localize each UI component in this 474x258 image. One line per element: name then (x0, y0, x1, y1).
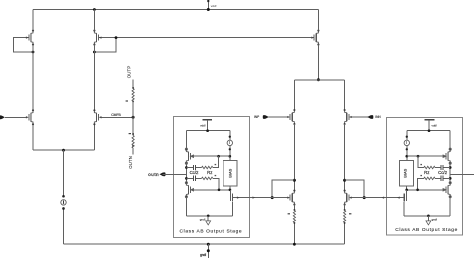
node stage2 tail junction (317, 78, 320, 81)
svg-text:OUTN: OUTN (128, 156, 133, 169)
transistor MN1 (input NMOS left) (26, 109, 34, 125)
wire: MN2 gate to CMFB (102, 116, 134, 118)
node left gate junction (271, 196, 274, 199)
wire: INP to gate (269, 116, 288, 118)
class AB output stage box 2 (mirrored) (380, 120, 474, 225)
wire: tail down (63, 150, 65, 244)
wire: VDD top rail (33, 9, 318, 11)
svg-text:Rz: Rz (424, 170, 429, 175)
svg-text:Cc/2: Cc/2 (438, 170, 447, 175)
node PMOS2 drain junction (93, 51, 96, 54)
svg-text:INN: INN (375, 115, 381, 119)
svg-text:gnd!: gnd! (200, 253, 206, 257)
label R1 tick (126, 100, 128, 101)
label R2 tick (129, 133, 131, 134)
wire: left drain vertical (293, 124, 295, 191)
wire: R1 to CMFB (132, 101, 134, 136)
resistor R4 (degen right) (344, 211, 346, 223)
svg-text:OUTP: OUTP (127, 66, 132, 79)
svg-text:outn: outn (148, 172, 159, 177)
wire: sources rail stage1 (33, 149, 94, 151)
node PMOS1 drain junction (32, 51, 35, 54)
current source I0 (tail) (61, 195, 66, 210)
transistor MP1 (left load PMOS) (26, 30, 34, 46)
wire: left branch (32, 10, 34, 151)
port IN (left edge) (0, 115, 5, 119)
wire: PMOS2 diode loop (94, 38, 116, 52)
wire: MP3 source (317, 10, 319, 31)
svg-text:Cc/2: Cc/2 (190, 170, 199, 175)
wire: right drain vertical (344, 124, 346, 191)
class AB output stage box 2 border (387, 118, 463, 236)
svg-text:gnd!: gnd! (200, 218, 206, 222)
node gnd port dot (207, 249, 210, 252)
node rail-PMOS2 junction (93, 8, 96, 11)
transistor MN2 (input NMOS right) (93, 109, 101, 125)
port outn (160, 172, 166, 176)
node tail junction (62, 149, 65, 152)
svg-text:INP: INP (254, 115, 259, 119)
svg-text:Class AB Output Stage: Class AB Output Stage (395, 227, 458, 233)
label R4 tick (349, 213, 351, 214)
wire: right branch (93, 10, 95, 151)
wire: input lead (5, 116, 26, 118)
wire: MN4 source (344, 205, 346, 245)
transistor MN3 (output NMOS left) (287, 190, 295, 206)
transistor MN4 (output NMOS right) (344, 190, 352, 206)
node R1 terminals (132, 87, 134, 89)
vdd supply tick (207, 0, 209, 2)
class AB output stage box 1 (163, 120, 257, 225)
wire: R2 to OUTN stub (132, 148, 134, 155)
wire: left gate-drain L (272, 180, 294, 197)
svg-text:vdd!: vdd! (432, 123, 438, 127)
node CMFB junction (132, 116, 135, 119)
wire: MN3 source (293, 205, 295, 245)
label R3 tick (288, 213, 290, 214)
wire: bottom ground rail (64, 243, 345, 245)
node right drain junction (343, 179, 346, 182)
wire: gnd stub (207, 244, 209, 258)
resistor R3 (degen left) (293, 211, 295, 223)
svg-text:CMFB: CMFB (111, 113, 121, 117)
wire: gate to INN (352, 116, 369, 118)
port INP (263, 115, 269, 119)
node R3 terminals (293, 209, 295, 211)
transistor MP3 (2nd stage current source PMOS) (311, 30, 319, 46)
svg-text:BIAS: BIAS (227, 168, 232, 177)
wire: mirror gate line (116, 37, 314, 39)
svg-text:Rz: Rz (207, 170, 212, 175)
svg-text:gnd!: gnd! (432, 218, 438, 222)
wire: box1 out to gate (257, 197, 289, 199)
svg-text:vdd!: vdd! (200, 123, 206, 127)
node left drain junction (293, 179, 296, 182)
node right gate junction (363, 196, 366, 199)
wire: right gate-drain L (345, 180, 365, 197)
wire: gate to box2 (352, 197, 380, 199)
node R4 terminals (344, 209, 346, 211)
wire: OUTP stub (132, 80, 134, 89)
wire: PMOS1 diode loop (14, 38, 34, 52)
transistor MP4 (2nd stage input PMOS left) (287, 109, 295, 125)
resistor R1 (CMFB) (132, 89, 134, 102)
port INN (367, 115, 373, 119)
svg-text:BIAS: BIAS (403, 168, 408, 177)
node gnd junction (207, 243, 210, 246)
node R2 terminals (132, 133, 134, 135)
wire: MP3 drain (317, 45, 319, 80)
wire: vdd stub (207, 2, 209, 9)
svg-text:Class AB Output Stage: Class AB Output Stage (180, 228, 243, 234)
class AB output stage box 1 border (174, 117, 250, 238)
node loop junction (115, 36, 118, 39)
node vdd junction (207, 8, 210, 11)
node MN3 source-rail junction (293, 243, 296, 246)
transistor MP5 (2nd stage input PMOS right) (344, 109, 352, 125)
transistor MP2 (right load PMOS) (93, 30, 101, 46)
wire: stage2 source rail (294, 80, 344, 110)
svg-text:vdd!: vdd! (211, 4, 217, 8)
resistor R2 (CMFB) (132, 136, 134, 149)
